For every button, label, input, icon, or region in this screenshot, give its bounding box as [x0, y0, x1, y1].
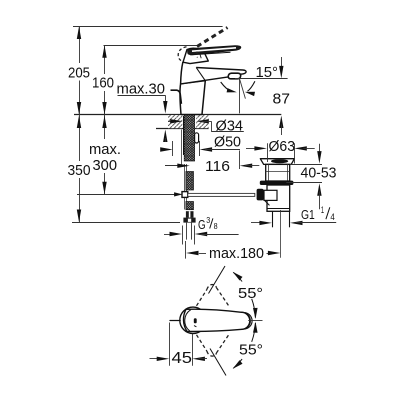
- dashed lever up 55deg: [197, 290, 207, 306]
- max180 dimension: [186, 251, 199, 255]
- faucet neck: [183, 48, 208, 63]
- svg-text:Ø50: Ø50: [214, 133, 241, 150]
- vertical pull rod: [184, 164, 186, 192]
- svg-text:55°: 55°: [239, 342, 263, 359]
- svg-text:max.30: max.30: [117, 81, 166, 98]
- svg-text:300: 300: [93, 157, 118, 174]
- reference line at 350 bottom (hose end): [72, 222, 180, 224]
- extension line: top of raised lever (205 ref): [73, 26, 223, 28]
- shank left edge: [183, 116, 185, 155]
- svg-text:3: 3: [206, 215, 210, 225]
- aerator outlet: [228, 73, 241, 79]
- rod clamp knob: [257, 189, 264, 201]
- dim O50 extension lines: [172, 141, 174, 156]
- raised lever dashed: [197, 28, 228, 47]
- dimension 87: [281, 57, 283, 69]
- lever detail dot: [194, 318, 197, 323]
- dimension line 160/max300 vertical: [104, 45, 106, 74]
- 3/8 tail pipe: [186, 223, 188, 240]
- lever inner left arc: [185, 310, 191, 331]
- drain plug cap: [271, 159, 288, 163]
- drain centerline: [280, 210, 282, 258]
- svg-text:205: 205: [68, 64, 90, 81]
- horizontal actuating rod: [188, 193, 255, 196]
- svg-text:87: 87: [273, 91, 291, 108]
- 55deg upper arc: [233, 272, 242, 281]
- pivot dashed arc: [178, 47, 186, 62]
- drain lower body: [267, 185, 290, 211]
- blade underside line: [190, 52, 230, 55]
- hose nut: [183, 218, 195, 223]
- dim O63 extension lines: [267, 143, 269, 162]
- extension line: top of lever (160 ref): [104, 45, 200, 47]
- svg-text:45: 45: [172, 350, 193, 367]
- faucet trunk: [180, 81, 205, 115]
- 55deg extension lines: [209, 266, 226, 294]
- svg-text:55°: 55°: [238, 285, 263, 302]
- neck highlight: [200, 54, 201, 58]
- svg-text:Ø34: Ø34: [216, 118, 244, 135]
- G3/8 extension lines: [182, 226, 184, 245]
- svg-text:G: G: [198, 218, 206, 232]
- top view lever: [183, 309, 250, 331]
- reference line at max300 bottom: [77, 194, 177, 196]
- braided hose lower: [186, 202, 194, 210]
- drain side port: [264, 190, 277, 200]
- svg-text:350: 350: [68, 162, 91, 179]
- top view centerline right of lever: [248, 320, 262, 322]
- 55deg lower arc: [233, 359, 242, 368]
- dim 116: [165, 165, 185, 167]
- top view base circle: [180, 307, 206, 333]
- dim 45 extension lines: [169, 323, 171, 366]
- drain tail pipe: [272, 211, 274, 227]
- drain flange: [260, 159, 294, 165]
- swivel joint square: [182, 192, 188, 198]
- G1-1/4 arrows: [251, 222, 266, 224]
- dim O63 arrows: [246, 148, 258, 150]
- 40-53 extension lines: [290, 164, 322, 166]
- svg-text:15°: 15°: [256, 64, 279, 81]
- deck top line: [74, 114, 281, 116]
- lever cap inner arcs: [241, 312, 250, 329]
- dim 45 arrows: [150, 358, 160, 360]
- svg-text:1: 1: [321, 205, 324, 215]
- deck hatch left: [168, 115, 182, 128]
- drain seal band: [260, 181, 294, 185]
- drain barrel: [266, 164, 290, 181]
- svg-text:8: 8: [214, 221, 218, 231]
- deck hatch right: [196, 115, 208, 128]
- pull rod knob tab: [195, 133, 199, 143]
- svg-text:Ø63: Ø63: [269, 138, 296, 155]
- svg-text:40-53: 40-53: [301, 165, 337, 182]
- supply hose upper: [186, 172, 194, 191]
- G3/8 dimension arrows: [164, 234, 177, 236]
- svg-text:4: 4: [330, 212, 334, 222]
- svg-text:116: 116: [205, 158, 230, 175]
- hook detail left of body: [171, 90, 182, 104]
- svg-text:160: 160: [92, 74, 114, 91]
- dim O50 arrows: [161, 149, 168, 151]
- max.30 leader/underline: [118, 95, 166, 97]
- svg-text:G1: G1: [301, 208, 315, 222]
- dashed lever down 55deg: [197, 335, 207, 351]
- svg-text:max.180: max.180: [209, 245, 264, 262]
- outlet vertical extension: [239, 78, 241, 113]
- dim O34: [168, 121, 178, 123]
- top view pull rod: [170, 320, 180, 322]
- lever blade: [188, 46, 241, 55]
- spout inner line: [196, 68, 205, 81]
- base edge extension line: [181, 130, 183, 167]
- threaded shank: [184, 115, 194, 161]
- 40-53 arrows: [319, 144, 321, 156]
- max.30 lower arrow: [163, 130, 167, 143]
- spout outlet level line (87 ref / 15 underline): [235, 78, 288, 80]
- junction arrow on max300 line: [174, 192, 183, 196]
- 15 deg tilted line: [240, 79, 246, 99]
- deck bottom line: [156, 128, 209, 130]
- swivel arc left: [221, 82, 232, 91]
- svg-text:max.: max.: [89, 141, 121, 158]
- dimension line 205/350 vertical: [79, 27, 81, 64]
- hose crimp: [186, 211, 194, 217]
- swivel arc right: [248, 81, 255, 91]
- max180 left extension: [185, 241, 187, 259]
- faucet spout: [181, 62, 247, 84]
